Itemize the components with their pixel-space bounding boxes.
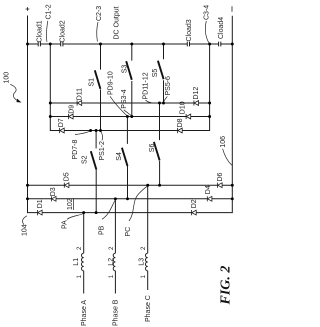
diode D4 (207, 196, 212, 201)
svg-text:Phase A: Phase A (81, 300, 88, 326)
svg-text:S2: S2 (81, 155, 88, 164)
wire clamp rail to C1-2/C3-4 (wire1 with D11,D12) (50, 102, 209, 104)
node S2 bottom (95, 211, 98, 214)
wire phase B pole (28, 198, 233, 200)
leader 106 (223, 149, 232, 166)
switch S2 blade (91, 151, 97, 169)
diode D1 (38, 210, 43, 215)
inductor L2 coil (113, 253, 115, 271)
leader C1-2 (46, 21, 47, 42)
node PD9-10 / S4 top (126, 115, 129, 118)
svg-text:D4: D4 (205, 185, 212, 194)
capacitor Cload2 (61, 42, 63, 47)
node S6 bottom (158, 184, 161, 187)
node PD11-12 / S6 top (158, 102, 161, 105)
diode D2 (192, 210, 197, 215)
inductor L1 column upper wire (83, 213, 85, 254)
svg-text:1: 1 (77, 274, 83, 278)
node PS1-2 / S1 bottom (99, 129, 102, 132)
capacitor Cload1 (38, 42, 40, 47)
inductor L3 column upper wire (147, 185, 149, 253)
svg-text:100: 100 (4, 72, 11, 84)
svg-text:1: 1 (141, 274, 147, 278)
svg-text:D1: D1 (37, 199, 44, 208)
leader PS1-2 (101, 132, 103, 141)
leader PS3-4 (124, 110, 132, 116)
inductor L1 coil (82, 253, 84, 271)
node C1-2 tap (49, 43, 52, 46)
svg-text:C1-2: C1-2 (46, 4, 53, 19)
node PS3-4 / S3 bottom (130, 115, 133, 118)
leader PC (129, 186, 147, 221)
switch S3 blade (126, 61, 132, 80)
node S2 top (95, 129, 98, 132)
diode D5 (64, 183, 69, 188)
node C1-2 wire2 junction (49, 115, 52, 118)
switch S4 column lower segment (127, 166, 129, 199)
node C1-2 column, clamp wire3, node C3-4 column (U path) (50, 44, 209, 131)
svg-text:PS5-6: PS5-6 (165, 76, 172, 96)
svg-text:102: 102 (67, 198, 74, 210)
diode D6 (218, 183, 223, 188)
svg-text:D9: D9 (69, 105, 76, 114)
switch S6 column lower segment (159, 161, 161, 186)
capacitor Cload4 (219, 42, 221, 47)
svg-text:L1: L1 (73, 258, 80, 266)
node PC / L3 tap (146, 184, 149, 187)
node PB / L2 tap (114, 197, 117, 200)
switch S5 blade (158, 61, 164, 79)
svg-text:PS3-4: PS3-4 (121, 89, 128, 109)
svg-text:D11: D11 (77, 88, 84, 100)
diode D12 (194, 100, 199, 105)
leader PB (102, 200, 115, 219)
diode D7 (60, 128, 65, 133)
svg-text:Phase B: Phase B (113, 299, 120, 326)
switch S5 column upper segment (163, 44, 165, 59)
svg-text:104: 104 (22, 224, 29, 236)
svg-text:PS1-2: PS1-2 (99, 141, 106, 161)
node PA / L1 tap (82, 211, 85, 214)
capacitor Cload3 (187, 42, 189, 47)
node - rail phase B junction (231, 197, 234, 200)
leader 104 (23, 216, 27, 225)
node C1-2 wire1 junction (49, 102, 52, 105)
node PS5-6 / S5 bottom (162, 102, 165, 105)
wire phase C pole (28, 184, 233, 186)
inductor L3 lower wire to Phase C (147, 271, 149, 290)
node C3-4 wire1 junction (208, 102, 211, 105)
node C3-4 tap (208, 43, 211, 46)
svg-text:S6: S6 (149, 144, 156, 153)
switch S3 column upper segment (131, 44, 133, 61)
switch S4 column upper segment (126, 117, 128, 144)
svg-text:D5: D5 (64, 172, 71, 181)
inductor L2 lower wire to Phase B (114, 271, 116, 294)
svg-text:D8: D8 (177, 118, 184, 127)
diode D11 (77, 100, 82, 105)
svg-text:Cload2: Cload2 (60, 20, 67, 42)
inductor L1 lower wire to Phase A (83, 271, 85, 294)
svg-text:2: 2 (109, 246, 115, 250)
svg-text:2: 2 (141, 246, 147, 250)
svg-text:PD9-10: PD9-10 (107, 71, 114, 95)
switch S6 blade (154, 142, 160, 160)
svg-text:C3-4: C3-4 (203, 5, 210, 20)
diode D10 (186, 114, 191, 119)
svg-text:PB: PB (98, 225, 105, 235)
text labels (rotated) (4, 4, 234, 326)
node C3-4 wire2 junction (208, 115, 211, 118)
node S1 top tap (99, 43, 102, 46)
leader PD11-12 (146, 100, 159, 103)
wire positive rail 104 + phase A pole wire + negative rail 106 (U outline) (28, 16, 233, 213)
leader lines (10, 21, 232, 225)
svg-text:Phase C: Phase C (145, 295, 152, 322)
svg-text:L3: L3 (139, 258, 146, 266)
leader PD9-10 (110, 96, 127, 115)
switch S5 column lower segment (163, 80, 165, 103)
diode D8 (178, 128, 183, 133)
svg-text:L2: L2 (108, 258, 115, 266)
wire clamp rail (wire2 with D9,D10) (50, 116, 209, 118)
node - rail / DC bus junction (231, 43, 234, 46)
svg-text:D6: D6 (217, 172, 224, 181)
svg-text:S3: S3 (121, 65, 128, 74)
node + rail / DC bus junction (26, 43, 29, 46)
svg-text:S4: S4 (116, 152, 123, 161)
node + rail phase C junction (26, 184, 29, 187)
switch S1 column upper segment (100, 44, 102, 70)
switch S6 column upper segment (159, 103, 161, 140)
- terminal label (rotated minus) (231, 6, 233, 11)
svg-text:Cload4: Cload4 (218, 17, 225, 39)
switch S1 blade (95, 70, 101, 89)
svg-text:PC: PC (125, 227, 132, 237)
svg-text:D3: D3 (50, 187, 57, 196)
svg-text:S5: S5 (152, 69, 159, 78)
switch S4 blade (122, 148, 128, 166)
svg-text:Cload1: Cload1 (37, 20, 44, 42)
leader PD7-8 (75, 131, 90, 134)
svg-text:D12: D12 (193, 87, 200, 100)
diode D3 (51, 196, 56, 201)
switch S2 column upper segment (95, 131, 97, 149)
svg-text:D10: D10 (180, 101, 187, 114)
+ terminal label (26, 7, 30, 11)
diode D9 (69, 114, 74, 119)
wire DC link top bus segments between capacitors (28, 43, 233, 45)
node S3 top tap (130, 43, 133, 46)
svg-text:106: 106 (220, 136, 227, 148)
node S5 top tap (162, 43, 165, 46)
svg-text:C2-3: C2-3 (96, 6, 103, 21)
svg-text:1: 1 (109, 274, 115, 278)
leader 100 arrow (10, 84, 17, 100)
leader PS5-6 (164, 97, 168, 103)
inductor L2 column upper wire (114, 199, 116, 253)
svg-text:S1: S1 (89, 78, 96, 87)
svg-text:2: 2 (77, 246, 83, 250)
leader C2-3 (97, 22, 98, 42)
switch S3 column lower segment (131, 81, 133, 117)
svg-text:PD7-8: PD7-8 (72, 140, 79, 160)
inductor L3 coil (146, 253, 148, 271)
svg-text:D7: D7 (58, 118, 65, 127)
node PD7-8 (89, 129, 92, 132)
svg-text:DC Output: DC Output (114, 6, 121, 39)
svg-text:PA: PA (62, 220, 69, 229)
svg-text:D2: D2 (191, 199, 198, 208)
svg-text:PD11-12: PD11-12 (143, 72, 150, 99)
switch S1 column lower segment (100, 89, 102, 130)
switch S2 column lower segment (95, 170, 97, 213)
svg-text:Cload3: Cload3 (186, 19, 193, 41)
leader C3-4 (205, 21, 208, 43)
leader PA (67, 214, 83, 220)
node + rail phase B junction (26, 197, 29, 200)
node S4 bottom (126, 197, 129, 200)
svg-text:FIG. 2: FIG. 2 (218, 266, 233, 306)
node - rail phase C junction (231, 184, 234, 187)
arrowhead of 100 leader (17, 99, 22, 103)
